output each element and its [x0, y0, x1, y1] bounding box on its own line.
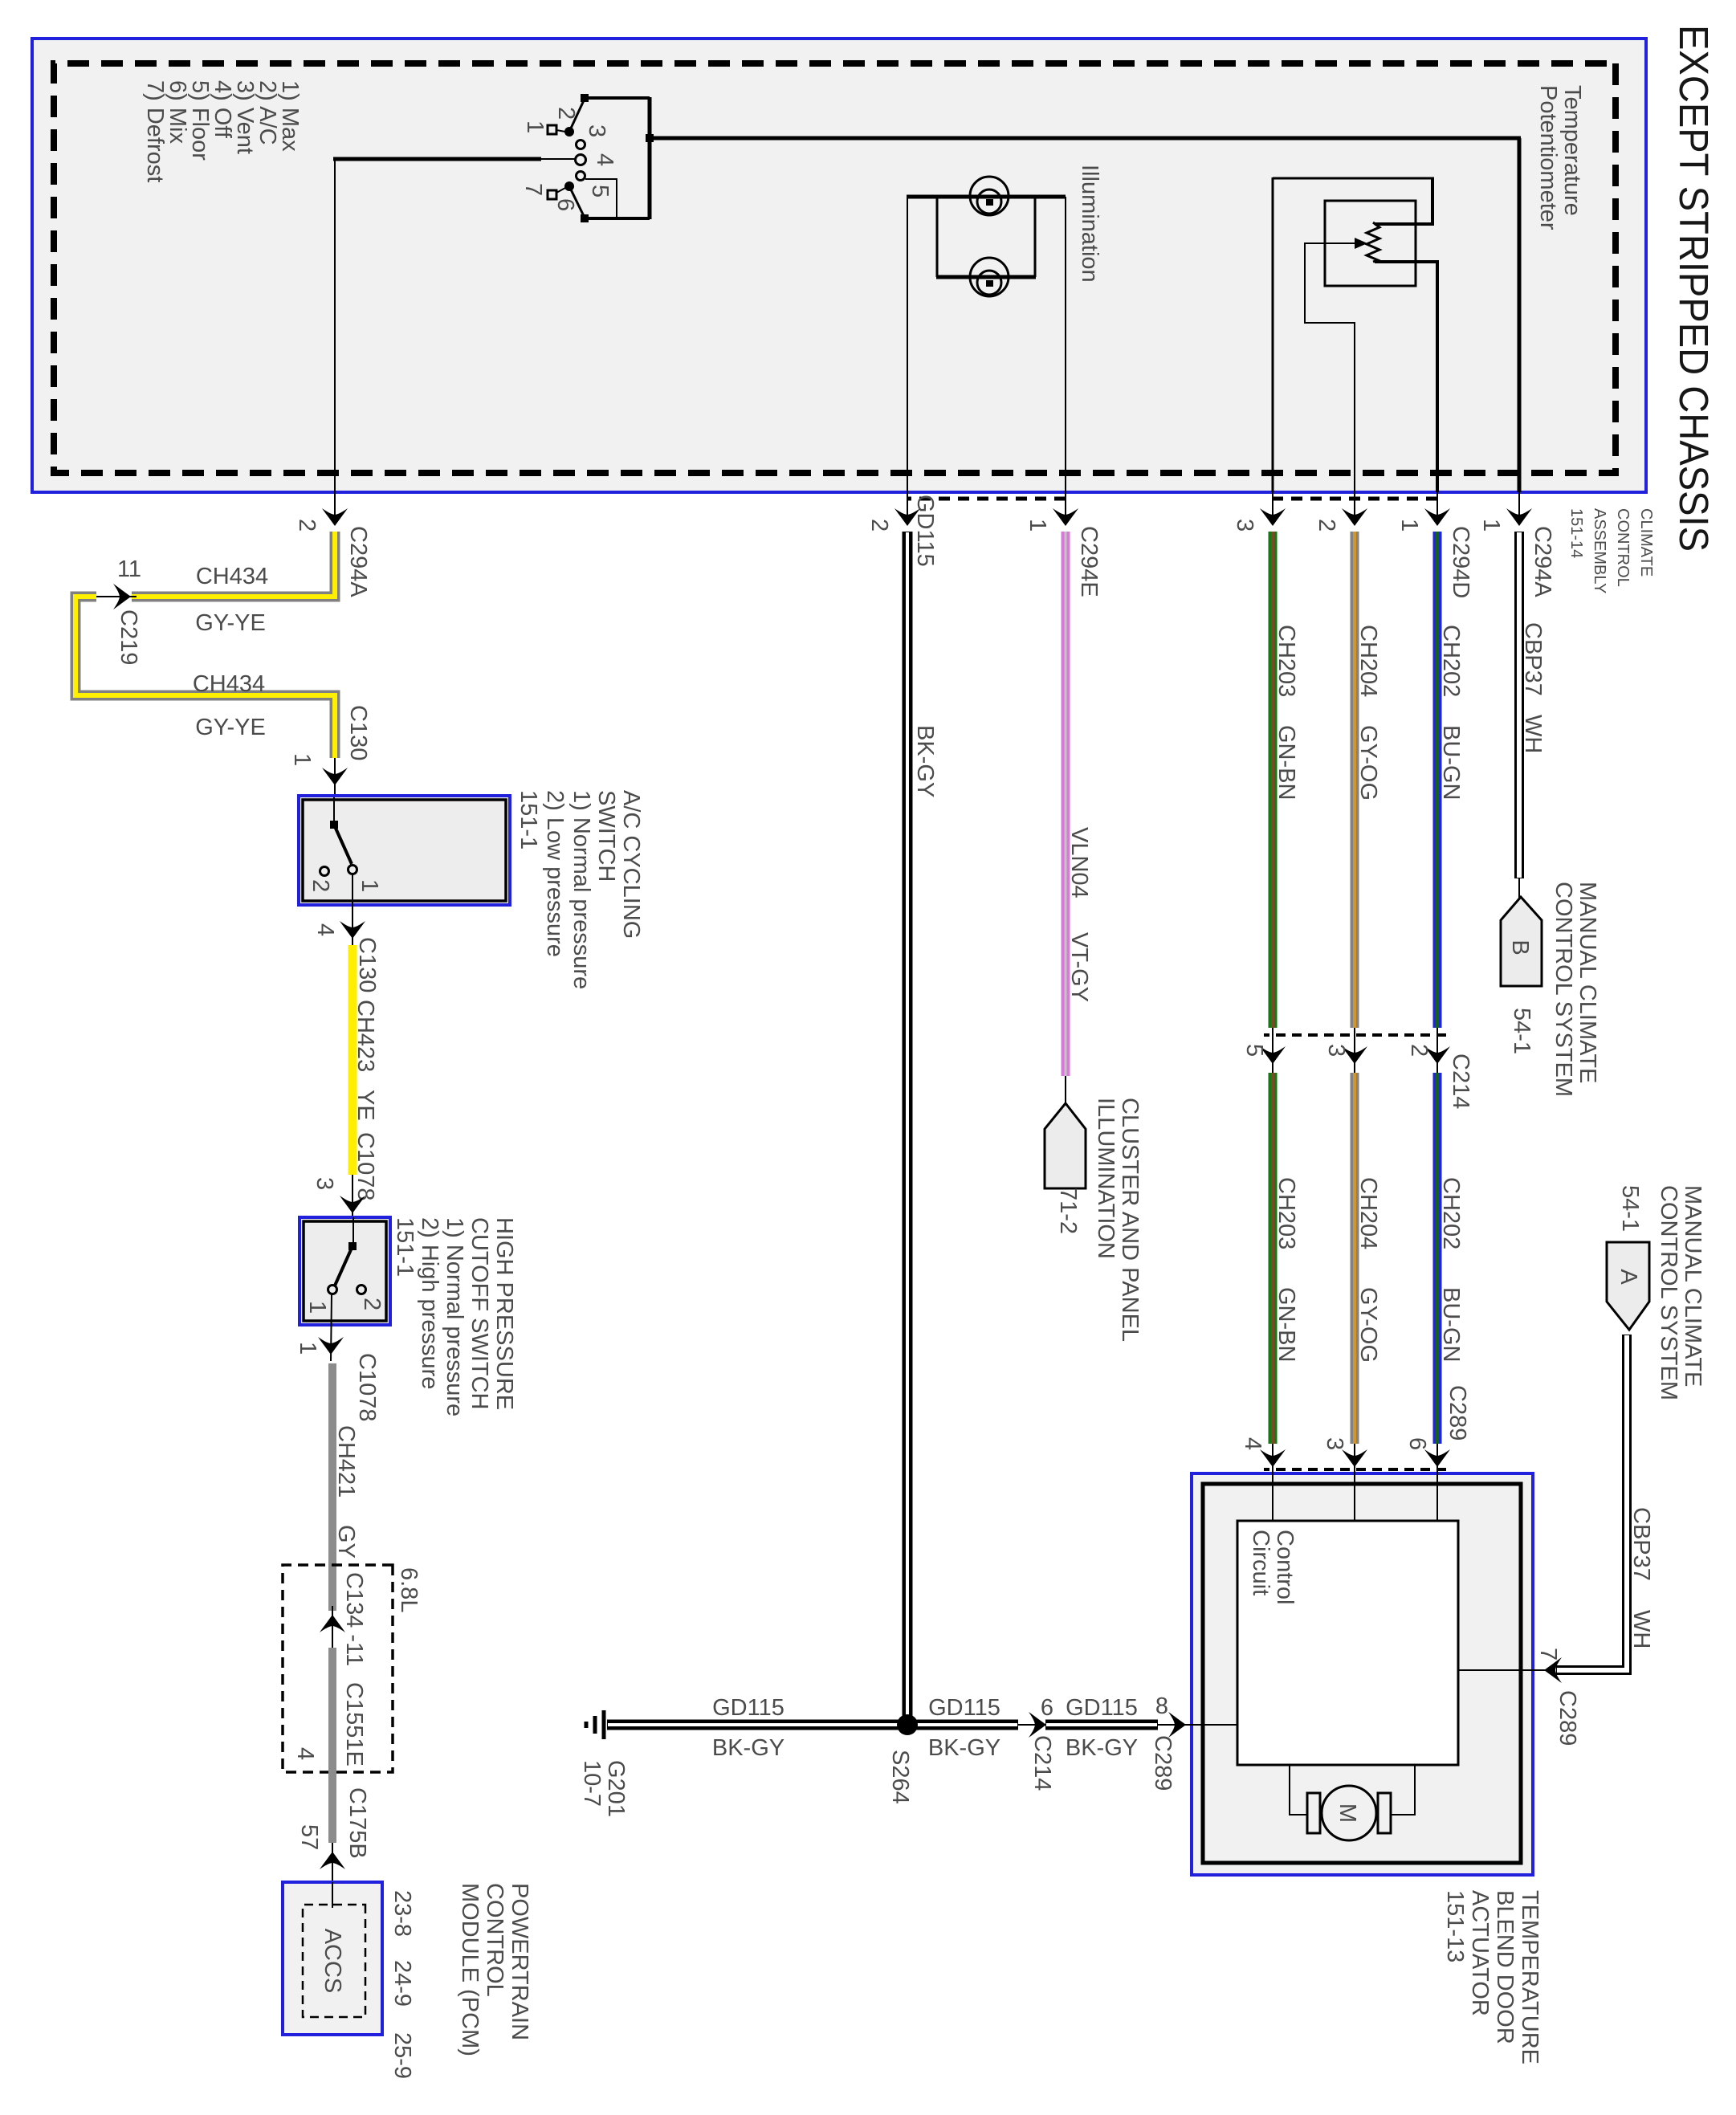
svg-text:GD115: GD115 [928, 1695, 1000, 1721]
svg-text:BK-GY: BK-GY [1066, 1735, 1138, 1761]
ground bus GD115 segment C214-S264 [909, 1695, 1018, 1761]
connector C175B pin57 arrow [296, 1787, 370, 1882]
svg-text:CONTROL SYSTEM: CONTROL SYSTEM [1656, 1185, 1681, 1400]
dashed box 6.8L [283, 1565, 422, 1772]
connector C214 pin3 arrow [1323, 1028, 1367, 1073]
wire CH421 GY segment 2 [292, 1648, 367, 1843]
svg-text:C294E: C294E [1076, 526, 1102, 597]
svg-text:CLUSTER AND PANEL: CLUSTER AND PANEL [1117, 1098, 1143, 1342]
svg-text:151-1: 151-1 [516, 790, 541, 850]
ground bus thin underlay [607, 1724, 1237, 1726]
svg-text:2: 2 [308, 879, 333, 892]
svg-text:11: 11 [117, 556, 141, 582]
svg-text:C1078: C1078 [352, 1132, 378, 1200]
svg-text:C214: C214 [1448, 1053, 1473, 1109]
svg-text:3: 3 [584, 124, 609, 137]
wire CH202 into control circuit [1436, 1471, 1438, 1521]
svg-text:CBP37: CBP37 [1520, 622, 1546, 696]
svg-text:TEMPERATURE: TEMPERATURE [1517, 1890, 1542, 2064]
label Temperature Potentiometer [1535, 85, 1585, 230]
svg-text:B: B [1507, 939, 1533, 955]
svg-text:CH423: CH423 [352, 1000, 378, 1072]
svg-text:C289: C289 [1445, 1385, 1470, 1441]
svg-text:4: 4 [292, 1747, 318, 1760]
wire VLN04 VT-GY [1066, 532, 1092, 1105]
high pressure cutoff switch box [300, 1217, 390, 1361]
svg-text:GD115: GD115 [712, 1695, 784, 1721]
connector C289 pin8 arrow (bus) [1150, 1693, 1186, 1791]
svg-text:Illumination: Illumination [1077, 165, 1102, 283]
connector C289 pin7 arrow and wire [1458, 1648, 1580, 1746]
svg-text:ILLUMINATION: ILLUMINATION [1093, 1098, 1119, 1259]
svg-text:MODULE (PCM): MODULE (PCM) [457, 1883, 483, 2056]
svg-text:4: 4 [1240, 1437, 1265, 1450]
svg-text:4: 4 [312, 923, 338, 936]
svg-text:S264: S264 [887, 1750, 913, 1804]
svg-text:5: 5 [1241, 1044, 1267, 1057]
wire CH203 GN-BN segment 1 [1273, 532, 1299, 1028]
svg-text:151-14: 151-14 [1567, 508, 1585, 558]
potentiometer wiper to pin2 (GY-OG) [1304, 238, 1367, 492]
label A/C cycling switch [516, 790, 644, 989]
lamp 2 [970, 258, 1009, 296]
svg-text:2) High pressure: 2) High pressure [417, 1217, 442, 1389]
svg-text:6: 6 [552, 198, 578, 211]
wire CH202 BU-GN segment 1 [1437, 532, 1464, 1028]
connector C294A pin2 arrow (GY-YE row) [294, 492, 371, 597]
svg-text:10-7: 10-7 [579, 1760, 605, 1807]
connector C289 pin6 arrow [1404, 1385, 1470, 1521]
svg-text:CH204: CH204 [1355, 625, 1381, 697]
wire CH434 GY-YE segment B (jog to C130) [75, 597, 335, 758]
svg-text:151-1: 151-1 [392, 1217, 418, 1277]
connector C134-11 arrow [320, 1572, 367, 1666]
connector C214 pin2 arrow [1406, 1028, 1473, 1109]
svg-text:2: 2 [1406, 1044, 1432, 1057]
wire CH423 YE [352, 945, 378, 1200]
svg-text:54-1: 54-1 [1509, 1008, 1534, 1054]
svg-text:24-9: 24-9 [389, 1960, 415, 2007]
svg-text:CH434: CH434 [193, 671, 265, 697]
svg-text:CONTROL SYSTEM: CONTROL SYSTEM [1551, 882, 1576, 1097]
wire GD115 BK-GY from climate box to S264 [907, 495, 938, 1720]
potentiometer frame [1325, 201, 1416, 286]
svg-text:VLN04: VLN04 [1066, 827, 1092, 899]
control circuit box [1237, 1521, 1458, 1765]
label temperature blend door actuator [1442, 1890, 1542, 2064]
wire: mode switch common to C294A pin2 (in box) [333, 157, 576, 492]
svg-text:6: 6 [1041, 1695, 1053, 1721]
potentiometer terminal to pin1 (BU-GN) [1375, 260, 1439, 492]
wire CH434 GY-YE segment A (to C219) [132, 532, 335, 597]
svg-text:3: 3 [1322, 1437, 1347, 1450]
svg-text:1: 1 [1396, 519, 1422, 532]
svg-text:A: A [1616, 1269, 1641, 1285]
wire CH203 GN-BN segment 2 [1273, 1073, 1299, 1444]
svg-text:CONTROL: CONTROL [482, 1883, 507, 1997]
svg-text:C289: C289 [1150, 1735, 1176, 1791]
svg-text:6.8L: 6.8L [396, 1567, 422, 1612]
wire CH203 into control circuit [1272, 1471, 1273, 1521]
connector C1078 pin3 arrow [312, 1175, 365, 1217]
svg-text:CLIMATE: CLIMATE [1637, 508, 1655, 577]
connector C289 pin3 arrow [1322, 1437, 1367, 1521]
svg-text:Potentiometer: Potentiometer [1535, 85, 1561, 230]
svg-text:GD115: GD115 [1066, 1695, 1138, 1721]
svg-text:C294A: C294A [345, 526, 371, 597]
wire CH204 GY-OG segment 2 [1355, 1073, 1381, 1444]
svg-text:WH: WH [1628, 1610, 1654, 1648]
svg-text:C175B: C175B [344, 1787, 370, 1859]
svg-text:GY-YE: GY-YE [195, 715, 266, 740]
pendant B manual climate control system [1501, 882, 1600, 1097]
svg-text:CH202: CH202 [1438, 1177, 1464, 1249]
svg-text:BK-GY: BK-GY [912, 725, 938, 797]
svg-text:1: 1 [289, 753, 315, 766]
illumination lamps group [907, 197, 1066, 492]
svg-text:Control: Control [1272, 1530, 1298, 1605]
svg-text:GY-OG: GY-OG [1355, 1287, 1381, 1363]
svg-text:CH203: CH203 [1273, 625, 1299, 697]
svg-text:CH203: CH203 [1273, 1177, 1299, 1249]
svg-text:C219: C219 [116, 609, 141, 665]
svg-text:1: 1 [357, 879, 382, 892]
mode switch moving contact pins 6-7 [548, 181, 585, 218]
connector C214 pin5 arrow [1241, 1028, 1286, 1073]
svg-text:1: 1 [304, 1301, 330, 1314]
svg-text:2: 2 [1314, 519, 1339, 532]
wire CBP37 WH to pendant A [1556, 1335, 1654, 1670]
connector C130 pin4 arrow [312, 905, 380, 992]
svg-text:VT-GY: VT-GY [1066, 932, 1092, 1002]
pendant cluster and panel illumination [1045, 1098, 1143, 1342]
connector C289 dashed line [1264, 1468, 1446, 1471]
connector C294E pin1 arrow (VT-GY row) [1025, 492, 1102, 597]
svg-text:7: 7 [520, 183, 546, 196]
svg-text:GY-YE: GY-YE [195, 610, 266, 636]
ground G201 [579, 1710, 629, 1817]
motor M [1289, 1765, 1416, 1840]
svg-text:2: 2 [359, 1298, 385, 1310]
svg-text:C130: C130 [345, 705, 371, 760]
connector C294D pin2 arrow (GY-OG row) [1314, 492, 1367, 532]
svg-text:3: 3 [312, 1177, 337, 1190]
label powertrain control module [389, 1883, 532, 2079]
svg-text:HIGH PRESSURE: HIGH PRESSURE [491, 1217, 517, 1410]
svg-text:C130: C130 [354, 937, 380, 992]
svg-text:C1551E: C1551E [341, 1682, 367, 1767]
svg-text:6: 6 [1404, 1437, 1430, 1450]
connector C214 dashed line [1264, 1033, 1446, 1037]
svg-text:CH421: CH421 [333, 1425, 359, 1498]
svg-text:GD115: GD115 [912, 495, 938, 567]
svg-text:GN-BN: GN-BN [1273, 725, 1299, 800]
svg-text:CH202: CH202 [1438, 625, 1464, 697]
svg-text:GY-OG: GY-OG [1355, 725, 1381, 801]
powertrain control module box [283, 1882, 382, 2035]
svg-text:CBP37: CBP37 [1628, 1507, 1654, 1581]
svg-text:151-13: 151-13 [1442, 1890, 1468, 1962]
svg-text:ASSEMBLY: ASSEMBLY [1591, 508, 1608, 593]
svg-text:4: 4 [592, 153, 617, 166]
mode position list [142, 80, 303, 182]
potentiometer resistor [1367, 222, 1379, 262]
climate control assembly box [32, 39, 1646, 492]
svg-text:2: 2 [553, 107, 579, 120]
svg-text:BK-GY: BK-GY [928, 1735, 1000, 1761]
svg-text:MANUAL CLIMATE: MANUAL CLIMATE [1680, 1185, 1705, 1387]
svg-text:1: 1 [522, 120, 548, 133]
svg-text:GY: GY [333, 1525, 359, 1559]
ground bus GD115 segment C289-C214 [1045, 1695, 1158, 1761]
svg-text:3: 3 [1232, 519, 1257, 532]
wire CH204 into control circuit [1354, 1471, 1355, 1521]
svg-text:2: 2 [866, 519, 892, 532]
connector C294D dashed bracket [1273, 497, 1437, 501]
svg-text:1: 1 [295, 1342, 320, 1355]
svg-text:1) Normal pressure: 1) Normal pressure [568, 790, 594, 989]
svg-text:YE: YE [352, 1090, 378, 1121]
pendant A manual climate control system [1607, 1185, 1705, 1400]
connector C294D pin1 arrow (BU-GN row) [1396, 492, 1473, 598]
A/C cycling switch box [299, 796, 510, 905]
splice S264 [887, 1714, 918, 1804]
potentiometer terminal to pin3 (GN-BN) [1273, 177, 1434, 492]
svg-text:POWERTRAIN: POWERTRAIN [507, 1883, 532, 2040]
svg-text:CH434: CH434 [196, 564, 268, 589]
svg-text:MANUAL CLIMATE: MANUAL CLIMATE [1575, 882, 1600, 1083]
svg-text:7) Defrost: 7) Defrost [142, 80, 168, 182]
mode switch bracket [581, 94, 654, 222]
connector C294A pin1 arrow (WH row) [1478, 492, 1555, 597]
svg-text:C1078: C1078 [354, 1353, 380, 1421]
svg-text:ACTUATOR: ACTUATOR [1467, 1890, 1493, 2016]
connector C294D pin3 arrow (GN-BN row) [1232, 492, 1286, 532]
svg-text:ACCS: ACCS [320, 1929, 345, 1994]
svg-text:71-2: 71-2 [1055, 1188, 1081, 1234]
svg-text:BLEND DOOR: BLEND DOOR [1492, 1890, 1518, 2044]
svg-text:WH: WH [1520, 715, 1546, 753]
wire CH202 BU-GN segment 2 [1437, 1073, 1464, 1444]
mode switch fixed contacts 3,4,5 [576, 141, 586, 181]
svg-text:2) Low pressure: 2) Low pressure [542, 790, 568, 957]
svg-text:1) Normal pressure: 1) Normal pressure [442, 1217, 467, 1416]
svg-text:1: 1 [1025, 519, 1050, 532]
lamp 1 [970, 177, 1009, 215]
connector C130 pin1 arrow [289, 705, 371, 796]
svg-text:C289: C289 [1555, 1690, 1580, 1746]
svg-text:1: 1 [1478, 519, 1504, 532]
connector C294E pin2 arrow (GD115 row) [866, 492, 920, 532]
temperature blend door actuator box [1192, 1473, 1533, 1875]
svg-text:SWITCH: SWITCH [593, 790, 619, 882]
svg-text:5: 5 [587, 185, 613, 198]
svg-text:A/C CYCLING: A/C CYCLING [618, 790, 644, 939]
svg-text:25-9: 25-9 [389, 2032, 415, 2079]
wire: mode switch pin3 to C294A pin1 (thick) [650, 138, 1521, 492]
wire CH204 GY-OG segment 1 [1355, 532, 1381, 1028]
svg-text:2: 2 [294, 519, 320, 532]
svg-text:M: M [1335, 1803, 1360, 1823]
connector C219 pin11 arrow [95, 556, 141, 665]
svg-text:57: 57 [296, 1824, 322, 1850]
mode switch pin5 link [585, 178, 617, 217]
svg-text:8: 8 [1155, 1693, 1168, 1719]
svg-text:BK-GY: BK-GY [712, 1735, 784, 1761]
ground bus GD115 segment S264-G201 [607, 1695, 906, 1761]
svg-text:CUTOFF SWITCH: CUTOFF SWITCH [467, 1217, 492, 1410]
label climate control assembly [1567, 508, 1655, 593]
svg-text:EXCEPT STRIPPED CHASSIS: EXCEPT STRIPPED CHASSIS [1671, 25, 1717, 552]
svg-text:G201: G201 [603, 1760, 629, 1817]
svg-text:Circuit: Circuit [1248, 1530, 1273, 1595]
svg-text:CONTROL: CONTROL [1614, 508, 1632, 587]
svg-text:BU-GN: BU-GN [1438, 725, 1464, 800]
connector C289 pin4 arrow [1240, 1437, 1286, 1521]
svg-text:23-8: 23-8 [389, 1890, 415, 1937]
svg-text:CH204: CH204 [1355, 1177, 1381, 1249]
connector C214 pin6 arrow (bus) [1029, 1695, 1055, 1791]
svg-text:7: 7 [1535, 1648, 1561, 1661]
mode switch pin labels [520, 107, 617, 211]
svg-text:54-1: 54-1 [1617, 1185, 1643, 1232]
mode switch moving contact pins 2-3 [548, 99, 585, 137]
svg-text:3: 3 [1323, 1044, 1349, 1057]
label high pressure cutoff switch [392, 1217, 517, 1416]
svg-text:Temperature: Temperature [1559, 85, 1585, 216]
wire CBP37 WH to pendant B [1519, 532, 1546, 899]
svg-text:BU-GN: BU-GN [1438, 1287, 1464, 1362]
connector C294E dashed bracket [907, 497, 1066, 501]
wire CH421 GY segment 1 [332, 1363, 359, 1611]
svg-text:C134 -11: C134 -11 [341, 1572, 367, 1666]
svg-text:C214: C214 [1029, 1735, 1055, 1791]
svg-text:C294D: C294D [1448, 526, 1473, 598]
svg-text:C294A: C294A [1530, 526, 1555, 597]
connector C1078 pin1 arrow [295, 1337, 380, 1421]
wire GD115 from control circuit to C289 [1184, 1724, 1237, 1726]
svg-text:GN-BN: GN-BN [1273, 1287, 1299, 1362]
